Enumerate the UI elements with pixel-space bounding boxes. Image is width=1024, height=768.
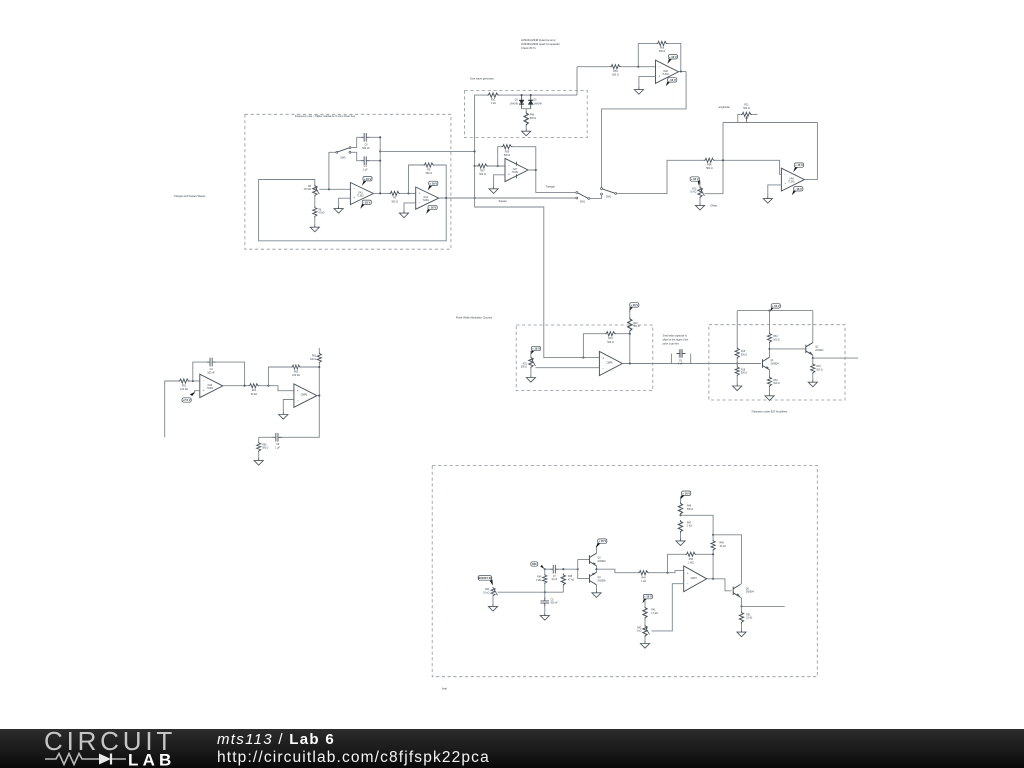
node rail-D1 [521,94,523,96]
wire OA2 output square [439,197,577,199]
ground offset pot [695,203,704,210]
svg-text:100 kΩ: 100 kΩ [180,388,188,391]
svg-text:−: − [353,187,355,191]
label R61 100 [310,356,317,361]
svg-text:500 Ω: 500 Ω [479,173,486,176]
wire divider top [680,496,682,502]
wire R40 to ground [525,126,527,128]
svg-text:LAB: LAB [128,752,176,766]
label Q5 2N3904 [746,588,755,593]
svg-text:500 Ω: 500 Ω [773,383,779,385]
power +16V bubble OA9 [793,163,803,172]
svg-text:R16: R16 [608,337,613,340]
svg-text:R45: R45 [568,576,573,578]
svg-text:TL081: TL081 [512,172,519,174]
wire triangle feed into sine box [475,95,487,151]
svg-text:10 µF: 10 µF [551,579,558,581]
svg-text:2N3904: 2N3904 [771,363,780,365]
label R59 500 [504,150,511,157]
svg-text:D2: D2 [534,100,538,102]
svg-text:LM324/LM348 Quad op-amp: LM324/LM348 Quad op-amp [521,38,556,42]
svg-text:500 Ω: 500 Ω [607,341,614,344]
resistor R40 [524,111,528,126]
capacitor C9 [677,349,686,358]
resistor R22 pullup [628,317,632,332]
svg-text:SIG: SIG [532,562,537,566]
svg-text:−: − [687,582,689,586]
ground Q4 collector [592,590,601,597]
wire OA2 minus to ground [404,203,416,211]
transistor Q5 2N3904 [733,585,740,598]
potentiometer R13 offset [698,186,705,198]
svg-text:+ 16 V: + 16 V [364,177,372,181]
node OA7 output [535,169,537,171]
wire R5 to OA2 plus [400,192,416,194]
wire offset pot to ground [699,199,701,203]
svg-text:TL081: TL081 [207,388,214,390]
svg-text:10 kΩ: 10 kΩ [720,546,726,548]
wire bias R41 top [644,600,646,606]
label R21 500 [521,363,528,368]
svg-text:Offset: Offset [710,204,717,208]
svg-text:−: − [297,398,299,402]
resistor R5 [389,191,400,195]
wire OA7 feedback [498,147,502,166]
wire R45 bottom [562,586,564,592]
svg-text:R56: R56 [660,47,665,50]
logo resistor and diode glyph [45,754,126,765]
svg-text:R46: R46 [687,506,692,508]
resistor R46 [678,502,682,515]
svg-text:1 kΩ: 1 kΩ [491,102,496,105]
label R19 500 [816,366,822,371]
wire OA6 feedback cap loop [193,362,207,381]
resistor R16 [605,332,616,336]
wire pwm output [623,363,653,365]
resistor R53 [767,332,771,343]
svg-text:R52: R52 [773,380,778,382]
node OA8 output [680,70,682,72]
wire R51b to ground [741,624,743,630]
power +16V bubble OA8 [667,55,677,64]
svg-text:TL081: TL081 [662,74,669,76]
node pushpull base [577,568,579,570]
svg-text:1 kΩ: 1 kΩ [637,631,642,633]
wire final output [742,605,785,607]
switch SW2 sine select [601,188,617,195]
node OA8 minus feedback tap [637,66,639,68]
comparator CMP5 [599,351,622,375]
svg-text:+: + [687,572,689,576]
comparator CMP6 [294,384,317,407]
svg-text:R6: R6 [308,186,312,188]
svg-text:- 16 V: - 16 V [363,200,370,204]
node OA2 output [445,197,447,199]
label C5 500nF [551,599,559,604]
wire C6 to column [370,136,381,138]
capacitor C5 bypass [541,598,550,607]
wire SW5 to C1 branch [351,152,361,160]
label R52 500 [773,380,779,385]
wire rail left drop [736,311,738,348]
CircuitLab logo [44,730,189,768]
label R11 500 [743,103,750,110]
label R55 100k [292,371,300,378]
wire divider to R48 [681,515,714,539]
ground OA8 plus [634,87,643,94]
svg-text:Frequency note ≈ Higher resist: Frequency note ≈ Higher resistance is mo… [295,115,356,118]
svg-text:60 kΩ: 60 kΩ [251,393,258,396]
wire R49 to cmp plus [649,571,684,573]
svg-text:470 kΩ: 470 kΩ [304,189,312,191]
svg-text:500 Ω: 500 Ω [741,354,747,356]
svg-text:500 Ω: 500 Ω [743,107,750,110]
svg-text:TL081: TL081 [357,196,364,198]
svg-text:Sine wave generator: Sine wave generator [470,76,494,80]
node minus column crossing [722,159,724,161]
wire left open column [165,381,179,437]
resistor R15 [735,347,739,359]
svg-text:−: − [659,65,661,69]
svg-text:−: − [203,379,205,383]
note small value capacitor [663,335,689,346]
svg-text:Q2: Q2 [815,347,819,349]
wire R51 to OA6 minus [190,380,200,382]
wire R60 top [258,437,260,441]
capacitor C6 [361,133,370,142]
wire C1 to column [370,160,381,162]
wire R11 left lead [738,114,741,122]
power -16V bubble OA2 [426,205,437,214]
svg-text:R53: R53 [773,336,778,338]
resistor R61 [317,352,321,363]
svg-text:R58: R58 [707,164,712,167]
label R15 500 [741,351,747,356]
svg-text:TL081: TL081 [788,182,795,184]
wire R15 to input node [736,359,738,366]
svg-text:1 µF: 1 µF [275,446,280,449]
capacitor C1 [361,156,370,165]
wire OA2 positive feedback [409,165,424,193]
wire R60 to ground [258,452,260,458]
wire pwm to follower [653,363,709,365]
svg-text:R42: R42 [637,627,642,629]
ground R8 [310,225,319,232]
capacitor C4 feedback [207,358,216,367]
node R48 branch [712,534,714,536]
svg-text:C9: C9 [679,360,683,362]
node OA6 output cap join [244,385,246,387]
svg-text:C7: C7 [553,576,557,578]
label R18 500 [741,369,747,374]
ground OA7 plus [489,186,498,193]
node column C1 [379,160,381,162]
wire CMP7 minus [651,584,683,631]
svg-text:R47: R47 [687,522,692,524]
svg-text:+: + [602,357,604,361]
node integrator input [328,188,330,190]
wire R6 to R8 [314,197,316,207]
wire OA8 plus to ground [639,77,656,87]
svg-text:OA8: OA8 [663,70,668,73]
svg-text:500 Ω: 500 Ω [530,117,537,120]
svg-text:+: + [659,74,661,78]
wire sine to switch [602,72,687,188]
svg-text:R48: R48 [720,543,725,545]
svg-text:R21: R21 [523,363,528,365]
node pwm feedback tap [582,357,584,359]
wire Q4 collector to ground [596,585,598,590]
svg-text:+ 16 V: + 16 V [429,181,437,185]
wire CMP6 minus to ground [283,400,294,412]
wire C9 riser left [670,354,672,364]
wire pwm pot to ground [530,369,532,375]
ground C5 [540,613,549,620]
wire R19 top [812,358,814,363]
svg-text:2N3904: 2N3904 [598,561,607,563]
svg-text:TL081: TL081 [422,200,429,202]
svg-text:R44: R44 [537,577,542,579]
wire R16 to output column [616,334,630,363]
svg-text:2N3904: 2N3904 [815,350,824,352]
wire R9 to output column [434,165,446,198]
wire OA7 output triangle [528,170,577,192]
transistor Q3 2N3904 [590,553,597,566]
svg-text:R5: R5 [393,197,397,200]
wire Q1 emitter [769,370,771,376]
ground OA9 plus [763,196,772,203]
label R42 1k [637,627,642,632]
label Q3 2N3904 [598,558,607,563]
wire R59 to OA7 output [513,147,536,170]
node divider mid [679,514,681,516]
node cmp input tap [666,572,668,574]
wire output to Q5 base [713,579,732,591]
wire base top stub [578,559,590,561]
label D1 1N4148 [510,100,519,106]
svg-text:47 kΩ: 47 kΩ [568,580,574,582]
wire R18 to ground [736,376,738,383]
svg-text:500 Ω: 500 Ω [612,73,619,76]
label R45 47k [568,576,574,581]
svg-text:500 Ω: 500 Ω [816,370,822,372]
wire rail to R53 [769,311,771,333]
svg-text:1 kΩ: 1 kΩ [641,581,646,583]
highlight C9 selection [678,349,682,357]
capacitor C7 coupling [550,565,559,574]
comparator CMP7 [684,566,707,592]
svg-text:R40: R40 [485,589,490,591]
wire C5 to ground [544,607,546,614]
ground sine box [522,129,531,136]
dashed box follower [709,325,845,400]
wire Q3 emitter to node [596,566,598,569]
label R56 500 [659,47,666,54]
svg-text:SW1: SW1 [580,200,586,203]
svg-text:final: final [442,686,447,690]
wire R42 to ground [644,637,646,641]
label C8 1uF [275,443,280,450]
svg-text:R55: R55 [294,371,299,374]
node CMP7 output [712,578,714,580]
resistor R52 [767,376,771,387]
wire OA8 feedback up [638,43,656,66]
node R50 join [712,553,714,555]
svg-text:R15: R15 [741,351,746,353]
wire R44 leads [544,569,546,574]
wire R51b top [741,606,743,611]
svg-text:Q1: Q1 [771,360,775,362]
wire R8 to ground [314,218,316,225]
wire pwm pot wiper to minus [535,367,599,369]
svg-text:R24: R24 [252,389,257,392]
wire feedback top rail [723,122,817,124]
svg-text:OA1: OA1 [358,192,363,195]
svg-text:500 Ω: 500 Ω [262,448,268,450]
wire R58 to OA9 minus [715,160,782,174]
svg-text:R19: R19 [816,366,821,368]
svg-text:500 Ω: 500 Ω [504,154,511,157]
node wiper R44 join [544,591,546,593]
svg-text:+ 16 V: + 16 V [630,303,638,307]
svg-text:+: + [419,192,421,196]
svg-text:OA2: OA2 [423,196,428,199]
wire column to R57 [475,165,477,167]
label R13 10k [690,188,697,193]
wire R50 to column [696,553,713,555]
wire Q1 collector [769,349,771,357]
resistor R45 [561,573,565,586]
node OA6 minus tap [192,380,194,382]
wire follower output [813,357,858,359]
power +16V bubble bias pot [642,594,652,603]
resistor R51b [739,611,743,623]
wire pwm pot top [530,351,532,356]
svg-text:R13: R13 [692,188,697,190]
wire R41 to pot [644,619,646,624]
svg-text:Square: Square [499,199,508,203]
svg-text:500 Ω: 500 Ω [659,50,666,53]
wire SW5 to C6 branch [351,137,361,147]
wire integrator output column [379,137,381,193]
svg-text:500 nF: 500 nF [207,371,215,374]
wire R52 to ground [769,387,771,393]
svg-text:R61: R61 [312,356,317,358]
wire CMP7 output [707,578,713,580]
node triangle column R57 [474,165,476,167]
wire right column [279,364,319,438]
node base divider [736,362,738,364]
op-amp OA8 TL081 [656,60,679,83]
svg-text:R59: R59 [505,150,510,153]
wire OA9 plus to ground [768,185,782,196]
svg-text:Q4: Q4 [598,577,602,579]
svg-text:+ 16 V: + 16 V [795,163,803,167]
svg-text:1 kΩ: 1 kΩ [687,526,692,528]
svg-text:R49: R49 [641,577,646,579]
label R47 1k [687,522,692,527]
wire sine rail [499,94,577,96]
signal bubble SIG [531,562,545,569]
label R24 60k [251,389,258,396]
svg-text:+ 16 V: + 16 V [691,177,699,181]
ground R51b [737,630,746,637]
wire R48 to output node [712,551,714,579]
svg-text:500 Ω: 500 Ω [706,167,713,170]
resistor R51 input [179,379,190,383]
ground R42 [640,641,649,648]
label R46 500 [687,506,693,511]
svg-text:- 16 V: - 16 V [795,187,802,191]
wire triangle tap to OA7 column [380,150,474,152]
wire follower input [709,363,761,365]
svg-text:OA6: OA6 [207,384,212,387]
svg-text:OA7: OA7 [513,168,518,171]
wire pwm positive feedback [583,334,605,358]
wire triangle into comparator plus [544,325,600,358]
resistor R44 [543,574,547,584]
svg-text:−: − [419,201,421,205]
node rail-D2 [530,94,532,96]
label R54 500 [612,70,619,77]
label C4 500nF [207,368,215,375]
node Q5 emitter out [740,605,742,607]
wire Q5 emitter [740,597,741,606]
svg-text:R22: R22 [633,323,638,325]
wire OA1 plus to ground [339,198,351,206]
node pullup feedback join [629,333,631,335]
svg-text:500 Ω: 500 Ω [426,172,433,175]
resistor R41 [643,606,647,619]
transistor Q2 2N3904 [806,343,813,356]
wire C8 to R60 [259,436,275,438]
wire R55 to column [301,366,320,368]
node OA2 plus tap [407,192,409,194]
svg-text:+ 16 V: + 16 V [598,539,606,543]
node pushpull output [595,568,597,570]
wire sine to R54 [577,66,610,68]
svg-text:500 Ω: 500 Ω [773,339,779,341]
label R8 47k [318,209,324,214]
svg-text:C5: C5 [551,599,555,601]
wire input to switch SW5 [329,152,336,189]
label R50 1M [688,559,694,565]
label C9 1nF [678,360,683,365]
svg-text:Q3: Q3 [598,558,602,560]
wire switch common to R58 [617,160,704,193]
wire final positive feedback [668,554,686,572]
ground CMP6 minus [279,412,288,419]
dashed box sine wave generator [465,90,588,137]
label D2 1N4148 [534,100,543,106]
footer bar [0,729,1024,768]
svg-text:1 µF: 1 µF [363,169,368,172]
svg-text:SW2: SW2 [606,196,612,199]
svg-text:1N4148: 1N4148 [534,103,543,105]
power +16V bubble OA2 [428,181,438,190]
wire R19 to ground [812,374,814,380]
svg-text:pulse to get thru: pulse to get thru [663,343,680,346]
wire node to C7 [545,568,550,570]
label R9 500 [426,169,433,176]
node triangle column top [474,150,476,152]
svg-text:500 nF: 500 nF [362,147,370,150]
node OA1 output [379,192,381,194]
wire OA6 plus stub [195,391,200,394]
resistor R54 [610,65,621,69]
wire R53 to collector node [769,343,771,349]
svg-text:CMP7: CMP7 [691,578,698,580]
